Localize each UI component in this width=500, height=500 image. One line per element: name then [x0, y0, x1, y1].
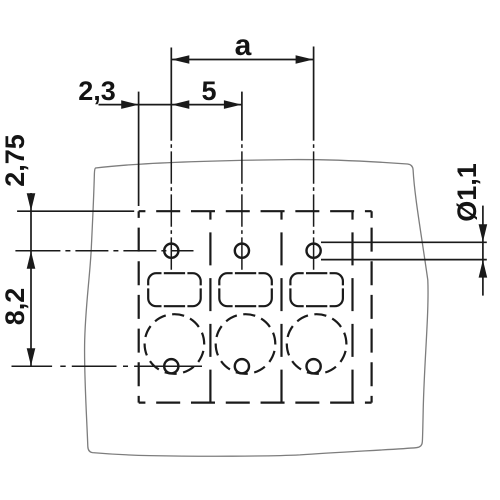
- dimension 2,75 / 8,2: vertical dimension line at left: [30, 193, 32, 366]
- svg-text:a: a: [235, 29, 252, 62]
- centerline pole 3 vertical (solid upper part): [313, 47, 315, 141]
- dimension 8,2: up arrowhead at top hole row: [27, 251, 36, 269]
- top drill hole, pole 2: [235, 244, 249, 258]
- dimension 2,3: arrowhead pointing right at housing edge: [121, 100, 139, 109]
- dimension 5: left arrowhead: [172, 100, 190, 109]
- dimension diameter 1,1: down arrowhead: [479, 224, 488, 242]
- screw opening dashed circle, pole 2: [216, 314, 276, 374]
- extension line housing top edge to left: [17, 210, 134, 212]
- svg-text:8,2: 8,2: [0, 288, 30, 326]
- pole divider dashed line 3: [351, 211, 353, 402]
- dimension a: dimension line: [171, 59, 313, 61]
- centerline pole 1 vertical (solid upper part): [170, 48, 172, 141]
- dimension 2,3 and 5: shared dimension line: [99, 104, 242, 106]
- centerline pole 2 vertical (dash-dot): [241, 141, 243, 271]
- dimension 2,75: down arrowhead at housing top edge: [27, 193, 36, 211]
- dimension diameter 1,1: up arrowhead: [479, 260, 488, 278]
- centerline pole 1 vertical (dash-dot): [170, 141, 172, 271]
- dimension a: right arrowhead: [296, 55, 314, 64]
- clamp window dashed rounded rect, pole 1: [148, 273, 201, 306]
- svg-text:2,3: 2,3: [78, 76, 116, 106]
- clamp window dashed rounded rect, pole 2: [219, 273, 271, 306]
- clamp window dashed rounded rect, pole 3: [290, 273, 343, 306]
- svg-text:2,75: 2,75: [0, 134, 30, 187]
- screw opening dashed circle, pole 1: [145, 314, 205, 374]
- dimension diameter 1,1: vertical dimension line: [482, 206, 484, 296]
- dimension 2,3: extension line at housing left edge: [138, 92, 140, 206]
- pole divider dashed line 2: [280, 211, 282, 402]
- centerline pole 3 vertical (dash-dot): [313, 141, 315, 271]
- dimension diameter 1,1: lower tangent line: [321, 259, 487, 261]
- top drill hole, pole 3: [307, 244, 321, 258]
- svg-text:5: 5: [201, 76, 216, 106]
- svg-text:Ø1,1: Ø1,1: [452, 163, 482, 222]
- bottom drill hole, pole 1: [164, 359, 178, 373]
- dimension 5: right arrowhead: [224, 100, 242, 109]
- PCB board outline (wavy sketch square): [85, 160, 428, 457]
- dimension diameter 1,1: upper tangent line: [321, 241, 487, 243]
- screw opening dashed circle, pole 3: [287, 314, 347, 374]
- centerline top hole row horizontal (dash-dot): [15, 250, 193, 252]
- bottom drill hole, pole 3: [307, 359, 321, 373]
- dimension a: left arrowhead: [172, 55, 190, 64]
- bottom drill hole, pole 2: [235, 359, 249, 373]
- centerline bottom hole row horizontal (dash-dot): [12, 365, 203, 367]
- top drill hole, pole 1: [164, 244, 178, 258]
- pole divider dashed line 1: [209, 211, 211, 402]
- dimension 8,2: down arrowhead at bottom hole row: [27, 348, 36, 366]
- centerline pole 2 vertical (solid upper part): [241, 92, 243, 141]
- outer dashed housing rectangle: [139, 210, 372, 212]
